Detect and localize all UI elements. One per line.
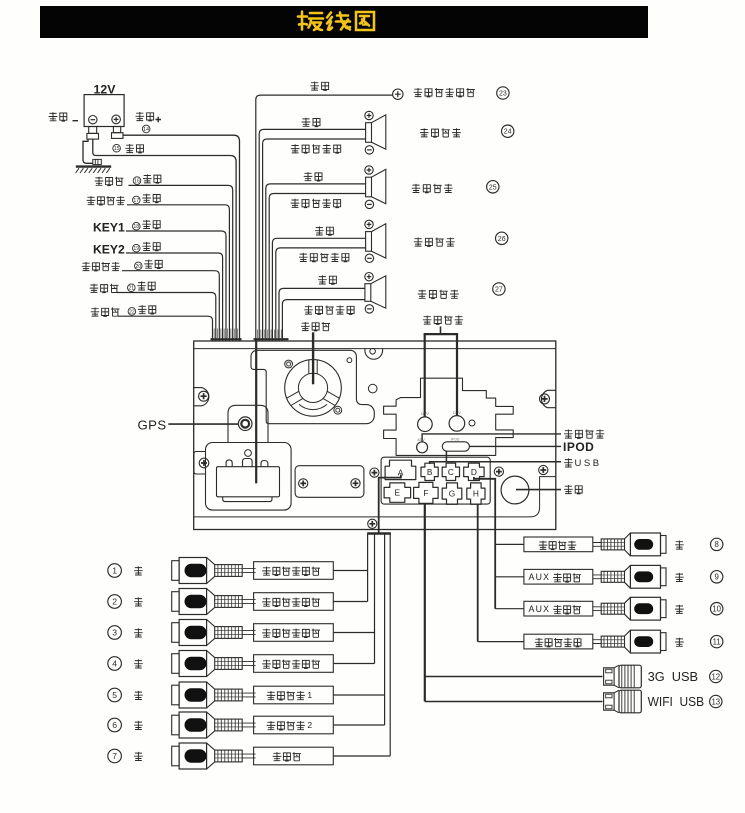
left edge screw tab — [194, 388, 209, 406]
svg-text:3G USB: 3G USB — [648, 670, 699, 684]
label color white 白色 — [315, 226, 333, 235]
svg-text:IPOD: IPOD — [451, 438, 460, 442]
label color green 綠色 — [318, 275, 336, 284]
front right speaker 前右喇叭 symbol — [366, 169, 386, 203]
plate left lobe — [194, 452, 206, 475]
svg-text:18: 18 — [133, 224, 139, 230]
connector C — [442, 463, 459, 480]
RCA output 3 front right audio out 前右音頻輸出 — [108, 620, 375, 646]
wire green 綠色 minus — [282, 300, 365, 341]
svg-text:AUX: AUX — [529, 604, 551, 614]
label 蓝色 — [310, 82, 328, 91]
USB row 12 3G USB — [425, 665, 722, 688]
wire purple 紫色 minus — [263, 139, 366, 341]
radio antenna connector 收音 — [501, 476, 529, 504]
analog TV label line — [422, 434, 561, 442]
battery 12V box — [84, 95, 124, 127]
ground symbol — [76, 139, 112, 173]
label rear right speaker 后右喇叭 — [420, 128, 461, 137]
wire 21 brake pink — [90, 281, 216, 341]
ATV connector — [417, 442, 428, 453]
GPS jack — [238, 417, 252, 431]
IPOD connector oval — [442, 442, 469, 451]
label 排風扇 — [301, 322, 330, 331]
svg-text:5: 5 — [112, 690, 117, 700]
rear right speaker 后右喇叭 symbol — [366, 115, 386, 149]
title text 接线图 — [298, 12, 374, 31]
RCA bus vertical 3 — [384, 534, 386, 726]
svg-text:19: 19 — [133, 246, 139, 252]
svg-text:USB: USB — [575, 458, 602, 469]
speaker plus mark — [365, 273, 373, 281]
wire from connector A to RCA bus — [379, 475, 401, 534]
svg-text:11: 11 — [713, 637, 721, 646]
rear USB line from B — [430, 451, 561, 464]
RCA output 6 video out 2 视频输出2 — [108, 712, 385, 738]
hole right of fan plate — [368, 384, 377, 393]
label 模拟電視 — [564, 430, 604, 439]
RCA bus vertical 1 — [367, 534, 369, 602]
circled 15 label 黑色 — [113, 144, 144, 153]
wire 18 KEY1 brown — [93, 220, 226, 341]
wire green 綠色 plus — [279, 288, 365, 341]
svg-text:D: D — [471, 467, 477, 477]
svg-text:17: 17 — [133, 198, 139, 204]
label 電源 + — [136, 112, 162, 122]
svg-text:24: 24 — [504, 129, 512, 136]
input row 8 video input 视频输入 — [495, 533, 723, 556]
GPS keyhole plate bump — [228, 405, 268, 443]
label 電源 - — [49, 112, 78, 121]
chassis outer body — [194, 341, 556, 530]
circled 23 — [497, 87, 509, 99]
wire gray 灰色 plus — [266, 184, 366, 341]
svg-text:26: 26 — [498, 236, 506, 243]
harness bundle wire into socket — [255, 339, 257, 484]
RCA output 4 front left audio out 前左音頻輸出 — [108, 651, 375, 677]
RCA bus bar — [367, 532, 391, 534]
speaker plus mark — [365, 220, 373, 228]
wire gray 灰色 minus — [269, 194, 365, 342]
harness bundle ticks right — [258, 330, 282, 340]
wire 23 blue antenna control — [256, 95, 393, 341]
label front right speaker 前右喇叭 — [412, 184, 453, 193]
small hole right of DTV — [469, 420, 475, 426]
title bar — [40, 6, 648, 38]
svg-text:7: 7 — [112, 751, 117, 761]
fan plate — [251, 350, 374, 423]
svg-text:1: 1 — [112, 566, 117, 576]
screw right of D — [494, 467, 503, 476]
speaker minus mark — [365, 200, 373, 208]
svg-text:AUX: AUX — [529, 572, 551, 582]
right edge screw tab — [541, 390, 555, 407]
GPS keyhole plate body — [206, 443, 292, 511]
screw small plate right — [351, 479, 360, 488]
connector B — [421, 463, 438, 480]
DTV connector 2 — [449, 416, 465, 432]
DTV connector 1 — [418, 417, 433, 432]
svg-text:3: 3 — [112, 628, 117, 638]
harness slot right — [254, 338, 289, 340]
top edge tab with hole — [365, 349, 383, 359]
svg-text:4: 4 — [112, 659, 117, 669]
front left speaker 前左喇叭 symbol — [366, 224, 386, 258]
svg-text:21: 21 — [128, 286, 134, 292]
svg-text:12: 12 — [711, 672, 720, 681]
svg-text:KEY2: KEY2 — [93, 243, 125, 257]
input row 10 AUX right input — [495, 597, 723, 620]
svg-text:B: B — [427, 467, 433, 477]
label 自動天線控制 — [414, 88, 475, 97]
screw near right edge — [539, 465, 548, 474]
screw left top — [199, 391, 209, 401]
wire 20 SWC ground black — [82, 260, 220, 341]
label 后USB — [564, 458, 601, 469]
svg-text:GPS: GPS — [138, 417, 167, 432]
svg-text:F: F — [423, 488, 428, 498]
数字电视 bracket wires — [424, 327, 459, 417]
chassis bottom flange line — [194, 477, 556, 517]
svg-text:16: 16 — [134, 179, 140, 185]
cooling fan — [285, 360, 342, 417]
small hole near top — [347, 358, 352, 363]
label 收音 — [564, 485, 582, 494]
circled 27 — [493, 283, 505, 295]
svg-text:27: 27 — [495, 287, 503, 294]
circled 14 — [142, 125, 150, 133]
ISO block outline — [381, 457, 490, 504]
wire 22 reverse orange — [91, 305, 213, 341]
screw left of ISO block — [370, 468, 379, 477]
USB row 13 WIFI USB — [425, 690, 722, 713]
svg-text:E: E — [395, 488, 401, 498]
connector H — [467, 483, 485, 504]
input row 11 rear camera 后视摄像头 — [478, 630, 723, 653]
connector F — [414, 482, 439, 503]
wire white 白色 minus — [276, 248, 366, 341]
wire 17 ignition red — [87, 194, 230, 341]
harness bundle ticks left — [214, 329, 237, 340]
wire 14 power plus — [123, 135, 240, 341]
speaker plus mark — [365, 166, 373, 174]
label color-black green 綠色和黑色 — [304, 306, 354, 315]
RCA output 5 video out 1 视频输出1 — [108, 682, 385, 708]
wire 15 black — [93, 139, 236, 341]
wire from connector D to AV input bus — [474, 477, 495, 609]
main harness socket — [217, 459, 280, 502]
screw bottom edge — [368, 519, 377, 528]
circled 25 — [487, 181, 499, 193]
wire 19 KEY2 brown — [93, 242, 223, 341]
screw left bottom — [199, 458, 209, 468]
wire 16 illumination orange — [95, 174, 233, 341]
svg-text:8: 8 — [715, 540, 719, 549]
battery terminal posts — [87, 127, 123, 140]
chassis top flange line — [194, 348, 556, 350]
label rear left speaker 后左喇叭 — [418, 290, 459, 299]
circled 26 — [496, 232, 508, 244]
svg-text:13: 13 — [711, 697, 720, 706]
label color-black gray 灰色和黑色 — [291, 199, 341, 208]
svg-text:WIFI USB: WIFI USB — [648, 695, 705, 709]
antenna control plus terminal — [393, 89, 403, 99]
svg-text:G: G — [449, 489, 455, 499]
label color-black purple 紫色和黑色 — [291, 144, 341, 153]
svg-text:23: 23 — [499, 91, 507, 98]
svg-text:6: 6 — [112, 720, 117, 730]
small plate with two screws — [295, 466, 364, 498]
circled 24 — [502, 125, 514, 137]
label color-black white 白色和黑色 — [299, 253, 349, 262]
speaker minus mark — [365, 254, 373, 262]
RCA output 2 rear left audio out 后左音頻輸出 — [108, 589, 368, 615]
svg-text:C: C — [448, 467, 454, 477]
radio label line — [516, 489, 561, 491]
wire purple 紫色 plus — [259, 129, 365, 341]
connector D — [464, 463, 484, 480]
svg-text:H: H — [473, 489, 479, 499]
label front left speaker 前左喇叭 — [414, 238, 455, 247]
RCA bus vertical 4 — [389, 534, 391, 757]
svg-text:22: 22 — [129, 309, 135, 315]
speaker minus mark — [365, 305, 373, 313]
wire white 白色 plus — [272, 238, 365, 341]
svg-text:KEY1: KEY1 — [93, 221, 125, 235]
svg-text:9: 9 — [715, 573, 719, 582]
battery plus terminal — [112, 115, 121, 124]
wire from connector H to rear camera — [477, 504, 479, 641]
数字电视 label — [423, 316, 463, 325]
connector A — [385, 460, 416, 479]
svg-text:ATV: ATV — [417, 437, 425, 442]
wire from connector F to USB — [424, 503, 426, 701]
RCA output 1 rear right audio out 后右音頻輸出 — [108, 558, 368, 584]
RCA bus vertical 2 — [374, 534, 376, 664]
svg-text:10: 10 — [712, 605, 721, 614]
svg-text:15: 15 — [114, 146, 120, 152]
RCA output 7 subwoofer 超低音 — [108, 743, 390, 769]
svg-text:20: 20 — [135, 264, 141, 270]
GPS label and line — [138, 417, 239, 432]
svg-text:IPOD: IPOD — [563, 440, 594, 454]
svg-text:14: 14 — [143, 127, 149, 133]
battery minus terminal — [89, 116, 97, 124]
fan wire 排風扇 line — [312, 332, 314, 384]
hole above socket — [245, 450, 252, 457]
connector G — [442, 483, 462, 504]
svg-text:2: 2 — [307, 720, 312, 730]
screw small plate left — [299, 479, 308, 488]
harness slot left — [211, 338, 242, 340]
svg-text:2: 2 — [112, 597, 117, 607]
svg-text:25: 25 — [489, 184, 497, 191]
speaker plus mark — [365, 111, 373, 119]
label color gray 灰色 — [304, 172, 322, 181]
connector E — [384, 483, 411, 502]
label color purple 紫色 — [302, 118, 320, 127]
TV connector plate — [384, 378, 514, 455]
screw right top — [540, 394, 550, 404]
rear left speaker 后左喇叭 symbol — [365, 276, 386, 308]
input row 9 AUX left input — [495, 565, 723, 588]
speaker minus mark — [365, 146, 373, 154]
svg-text:1: 1 — [307, 690, 312, 700]
IPOD label line — [470, 445, 562, 447]
